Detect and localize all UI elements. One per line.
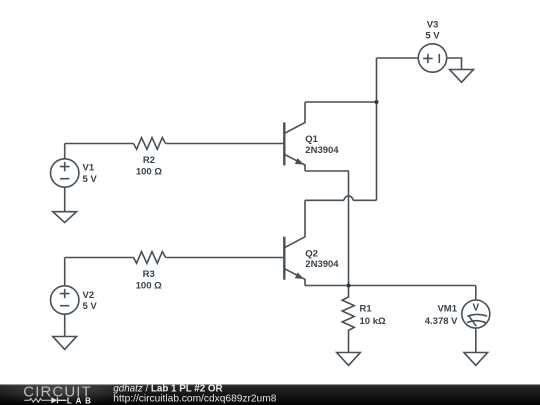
transistor Q1: [284, 102, 305, 171]
transistor Q2: [284, 200, 305, 285]
ground below V2: [53, 337, 77, 350]
label Q2: [305, 248, 339, 270]
svg-text:LAB: LAB: [67, 396, 95, 405]
svg-text:http://circuitlab.com/cdxq689z: http://circuitlab.com/cdxq689zr2um8: [113, 393, 276, 404]
resistor R2: [134, 138, 166, 150]
footer bar: [0, 384, 540, 405]
wire V2 to R3: [65, 257, 134, 259]
svg-text:2N3904: 2N3904: [305, 259, 339, 270]
voltage source V3: [418, 44, 446, 72]
resistor R1: [342, 286, 354, 353]
wire VM1 top lead: [475, 286, 477, 301]
ground below V1: [53, 212, 77, 223]
svg-text:5 V: 5 V: [425, 31, 440, 42]
wire right vertical from V3: [376, 58, 378, 200]
svg-text:V2: V2: [83, 290, 95, 301]
svg-text:V1: V1: [83, 163, 95, 174]
svg-text:2N3904: 2N3904: [305, 145, 339, 156]
svg-text:5 V: 5 V: [83, 301, 98, 312]
voltage source V1: [50, 159, 78, 187]
wire VM1 bottom lead: [475, 328, 477, 353]
svg-text:R2: R2: [143, 155, 155, 166]
wire Q2 emitter to VM1: [305, 285, 476, 287]
label Q1: [305, 134, 339, 156]
label VM1: [425, 304, 458, 327]
svg-text:V3: V3: [427, 19, 439, 30]
wire R3 to Q2 base: [166, 257, 284, 259]
wire V3 left lead: [377, 57, 419, 59]
wire Q2 collector right segment: [353, 199, 377, 201]
svg-text:5 V: 5 V: [83, 174, 98, 185]
svg-text:100 Ω: 100 Ω: [136, 280, 162, 291]
voltmeter VM1: [462, 300, 490, 328]
svg-text:VM1: VM1: [437, 304, 457, 315]
wire V1 bottom lead: [64, 187, 66, 212]
label V1: [83, 163, 98, 185]
ground below V3: [450, 70, 474, 83]
wire hop over Q1 emitter: [344, 196, 353, 200]
svg-text:R1: R1: [360, 304, 373, 315]
junction node Q1 collector / V3 rail: [375, 100, 379, 104]
wire V1 to R2: [65, 143, 134, 145]
svg-text:Q2: Q2: [305, 248, 318, 259]
label V2: [83, 290, 98, 312]
ground below VM1: [464, 353, 488, 366]
label R1: [360, 304, 386, 327]
wire Q2 collector left segment: [305, 199, 344, 201]
resistor R3: [134, 252, 166, 264]
svg-text:V: V: [472, 303, 479, 314]
junction node Q2 emitter / R1: [347, 284, 351, 288]
label R3: [136, 269, 162, 291]
wire Q1 collector to node: [305, 101, 377, 103]
wire V1 top lead: [64, 144, 66, 159]
ground below R1: [337, 353, 361, 366]
svg-text:Q1: Q1: [305, 134, 318, 145]
svg-text:10 kΩ: 10 kΩ: [360, 316, 386, 327]
wire R2 to Q1 base: [166, 143, 284, 145]
label R2: [136, 155, 162, 177]
wire V3 right lead: [447, 58, 462, 70]
wire V2 bottom lead: [64, 314, 66, 336]
svg-text:100 Ω: 100 Ω: [136, 167, 162, 178]
voltage source V2: [50, 286, 78, 314]
CircuitLab logo resistor-diode glyph: [24, 397, 66, 403]
label V3: [425, 19, 440, 41]
svg-text:R3: R3: [143, 269, 155, 280]
wire V2 top lead: [64, 258, 66, 286]
wire Q1 emitter run: [305, 171, 349, 286]
svg-text:4.378 V: 4.378 V: [425, 316, 458, 327]
